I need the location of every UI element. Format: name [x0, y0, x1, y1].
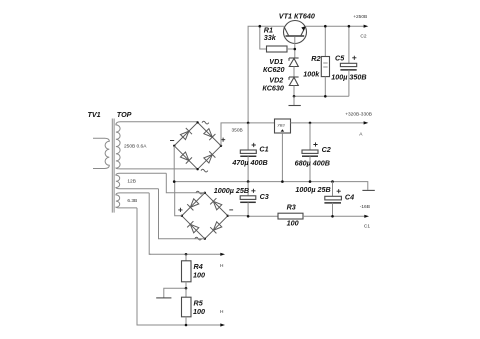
- wire 6.3V bottom lead column: [137, 208, 222, 325]
- transistor emitter lead: [301, 27, 306, 36]
- svg-text:12В: 12В: [127, 179, 136, 185]
- label minus bridge1: [170, 140, 174, 142]
- arrow -16V: [364, 215, 369, 218]
- svg-text:C2: C2: [322, 145, 331, 154]
- svg-text:-16В: -16В: [360, 204, 370, 210]
- svg-text:1000µ 25В: 1000µ 25В: [214, 186, 249, 195]
- junction C3 bottom: [247, 215, 250, 218]
- svg-text:250В 0.6А: 250В 0.6А: [124, 144, 147, 150]
- fuse box: [275, 119, 291, 182]
- svg-text:100: 100: [287, 219, 299, 228]
- capacitor C3: [214, 182, 269, 217]
- label plus C1: [252, 143, 256, 147]
- svg-text:КС630: КС630: [262, 84, 284, 93]
- wire top-left column: [248, 26, 284, 123]
- wire bridge2 plus to 0V rail: [175, 182, 182, 216]
- junction dots 0V rail: [173, 180, 176, 183]
- transistor VT1: [279, 12, 315, 58]
- label plus C2: [313, 142, 317, 146]
- svg-text:С1: С1: [364, 224, 370, 230]
- svg-text:С2: С2: [360, 34, 366, 40]
- diode bridge1 top-left: [180, 128, 192, 140]
- resistor R3: [278, 203, 303, 228]
- junction R4-R5: [185, 287, 188, 290]
- wire box to arrow A: [291, 122, 365, 124]
- bridge rectifier 2 outline: [182, 193, 228, 239]
- label plus bridge2: [178, 208, 182, 212]
- svg-text:Н: Н: [220, 309, 224, 315]
- svg-text:100: 100: [193, 271, 205, 280]
- transistor collector lead: [284, 27, 289, 36]
- svg-text:680µ 400В: 680µ 400В: [295, 158, 330, 167]
- zener VD1: [289, 58, 299, 77]
- wire emitter to +250V: [306, 25, 365, 27]
- secondary winding 6.3V: [116, 193, 149, 208]
- label ~ bridge2 top: [196, 191, 203, 194]
- resistor R4: [182, 254, 206, 288]
- diode bridge2 top-left: [187, 199, 199, 211]
- ground left: [156, 288, 186, 298]
- wire -16V rail right: [303, 215, 365, 217]
- diode bridge1 top-right: [204, 129, 216, 141]
- junction bridge2 corners: [204, 192, 206, 194]
- junction R5 bottom: [185, 324, 188, 327]
- diode bridge1 bottom-right: [204, 151, 216, 163]
- transistor emitter arrow: [301, 26, 305, 31]
- capacitor C4: [295, 182, 354, 217]
- svg-text:350В: 350В: [232, 127, 243, 133]
- svg-text:КС620: КС620: [263, 65, 285, 74]
- arrow +320V-330V: [364, 121, 369, 124]
- junction C1 top: [247, 122, 250, 125]
- wire 12V bottom lead to bridge2: [159, 189, 205, 239]
- secondary winding 250V: [116, 122, 198, 169]
- svg-text:R4: R4: [194, 262, 203, 271]
- capacitor C5: [331, 25, 366, 96]
- label ~ bridge2 bottom: [195, 237, 202, 240]
- resistor R5: [182, 288, 206, 325]
- svg-text:1000µ 25В: 1000µ 25В: [295, 185, 330, 194]
- svg-text:33k: 33k: [264, 33, 277, 42]
- svg-text:100k: 100k: [303, 69, 320, 78]
- label ~ bridge1 bottom: [201, 169, 208, 172]
- label plus C5: [352, 56, 356, 60]
- svg-text:6.3В: 6.3В: [127, 198, 137, 204]
- resistor R1: [259, 25, 297, 52]
- wire R1 right: [287, 48, 295, 50]
- transformer TV1: [88, 110, 198, 213]
- wire 12V top lead to bridge2: [166, 173, 205, 193]
- ground right: [362, 189, 374, 191]
- wire 6.3V top lead column: [149, 193, 150, 254]
- svg-text:+320В-330В: +320В-330В: [345, 112, 372, 118]
- diode bridge1 bottom-left: [180, 152, 192, 164]
- resistor R2: [303, 25, 329, 98]
- diode bridge2 bottom-left: [187, 221, 199, 233]
- ground center: [293, 96, 295, 105]
- svg-text:C4: C4: [345, 193, 354, 202]
- junction C2 top: [309, 122, 312, 125]
- svg-text:470µ 400В: 470µ 400В: [231, 158, 267, 167]
- label plus bridge1: [221, 138, 225, 142]
- wire zener bottom rail: [294, 95, 349, 97]
- label plus C4: [337, 189, 341, 193]
- wire 350V rail to box: [248, 122, 274, 124]
- capacitor C2: [295, 123, 331, 182]
- junction C4 bottom: [331, 215, 334, 218]
- svg-text:R2: R2: [311, 54, 320, 63]
- svg-text:Н: Н: [220, 263, 224, 269]
- svg-text:100µ 350В: 100µ 350В: [331, 72, 366, 81]
- junction bridge1 corners: [196, 121, 198, 123]
- svg-text:R3: R3: [287, 203, 296, 212]
- wire bridge1 plus up to 350V rail: [221, 123, 248, 146]
- transistor base column: [294, 37, 296, 58]
- svg-text:C5: C5: [335, 53, 345, 62]
- bridge rectifier 1 outline: [174, 122, 221, 169]
- junction R4 top: [185, 253, 188, 256]
- primary winding: [93, 138, 109, 168]
- svg-text:C3: C3: [260, 192, 269, 201]
- arrow heater top: [220, 253, 225, 256]
- wire 0V rail: [174, 182, 368, 190]
- svg-text:VT1 КТ640: VT1 КТ640: [279, 12, 315, 21]
- wire R1 left: [260, 26, 267, 49]
- R1 box: [267, 46, 288, 52]
- label ~ bridge1 top: [202, 121, 209, 124]
- capacitor C1: [231, 123, 268, 182]
- diode bridge2 top-right: [210, 198, 222, 210]
- diode bridge2 bottom-right: [210, 222, 222, 234]
- arrow +250V: [364, 25, 369, 28]
- svg-text:+250В: +250В: [353, 14, 367, 20]
- transistor base bar: [286, 35, 305, 37]
- zener VD2: [289, 77, 299, 96]
- core: [111, 119, 113, 213]
- wire heater rail top: [149, 253, 221, 255]
- wire -16V rail left: [228, 215, 278, 218]
- wire bridge1 minus to 0V rail: [173, 146, 175, 182]
- secondary winding 12V: [116, 173, 166, 188]
- transistor circle: [284, 21, 307, 44]
- label minus bridge2: [229, 209, 233, 211]
- label plus C3: [251, 189, 255, 193]
- svg-text:TV1: TV1: [88, 110, 101, 119]
- junction VD2 bottom: [293, 95, 296, 98]
- arrow heater bottom: [220, 323, 225, 326]
- svg-text:C1: C1: [259, 145, 268, 154]
- svg-text:УВ3: УВ3: [277, 122, 285, 127]
- svg-text:100: 100: [193, 307, 205, 316]
- svg-text:ТОР: ТОР: [117, 110, 132, 119]
